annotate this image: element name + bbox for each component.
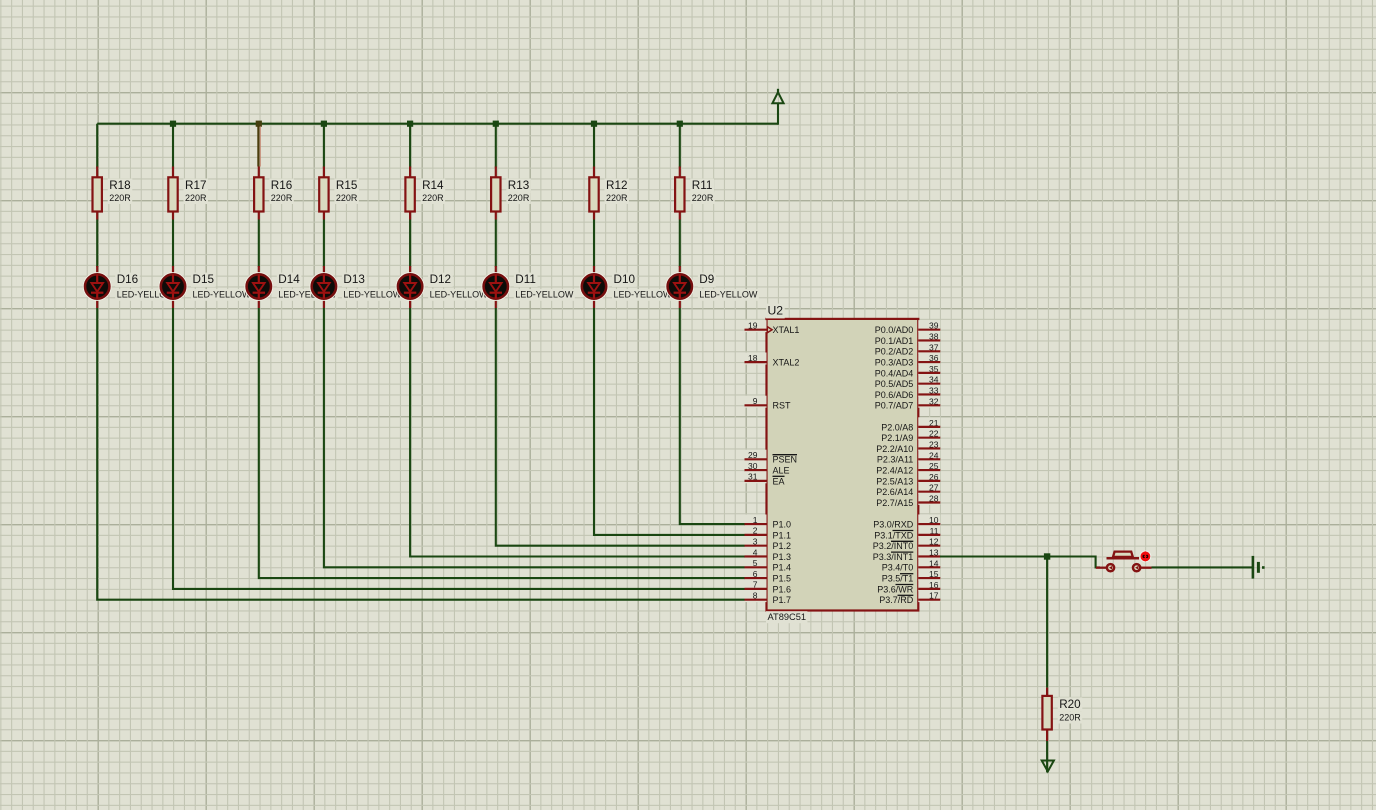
svg-text:220R: 220R (508, 193, 530, 203)
svg-text:220R: 220R (185, 193, 207, 203)
ground symbol (1042, 761, 1054, 772)
wire button to battery (1152, 566, 1253, 568)
pin 16 P3.6/WR (877, 579, 940, 594)
pin 8 P1.7 (745, 590, 792, 605)
pin 15 P3.5/T1 (882, 569, 941, 584)
svg-text:P2.5/A13: P2.5/A13 (876, 476, 913, 486)
resistor R18 220R (93, 167, 133, 220)
svg-text:220R: 220R (1059, 712, 1081, 722)
svg-text:D14: D14 (278, 273, 300, 286)
svg-text:P3.3/INT1: P3.3/INT1 (873, 552, 914, 562)
svg-text:220R: 220R (271, 193, 293, 203)
pin 21 P2.0/A8 (881, 417, 940, 432)
junction rail / R14 column (407, 121, 413, 127)
svg-text:D16: D16 (117, 273, 138, 286)
wire R20 to ground (1046, 741, 1048, 772)
junction rail / R12 column (591, 121, 597, 127)
wire D13 to P1.4 (324, 308, 745, 567)
svg-text:P2.0/A8: P2.0/A8 (881, 422, 913, 432)
wire power rail (97, 123, 778, 125)
LED D9 LED-YELLOW (665, 266, 758, 308)
pin 34 P0.5/AD5 (875, 374, 941, 389)
pin 10 P3.0/RXD (873, 515, 940, 530)
svg-text:P3.5/T1: P3.5/T1 (882, 574, 914, 584)
pin 28 P2.7/A15 (876, 493, 940, 508)
svg-text:ALE: ALE (773, 466, 790, 476)
pin 22 P2.1/A9 (881, 428, 940, 443)
svg-text:XTAL2: XTAL2 (773, 358, 800, 368)
svg-text:P1.0: P1.0 (773, 520, 792, 530)
resistor R14 220R (405, 167, 445, 220)
wire rail to R15 (323, 124, 325, 168)
svg-text:P1.7: P1.7 (773, 595, 792, 605)
svg-text:P0.1/AD1: P0.1/AD1 (875, 336, 914, 346)
pin 12 P3.2/INT0 (873, 536, 941, 551)
svg-text:P0.3/AD3: P0.3/AD3 (875, 358, 914, 368)
pin 2 P1.1 (745, 525, 792, 540)
LED D11 LED-YELLOW (481, 266, 574, 308)
svg-text:P2.3/A11: P2.3/A11 (877, 455, 913, 465)
wire D9 to P1.0 (680, 308, 745, 524)
svg-text:D12: D12 (430, 273, 451, 286)
wire D14 to P1.5 (259, 308, 745, 578)
red actuator marker (1140, 551, 1152, 563)
pin 38 P0.1/AD1 (875, 331, 941, 346)
pin 11 P3.1/TXD (874, 525, 940, 540)
svg-text:R18: R18 (109, 179, 130, 192)
svg-text:RST: RST (773, 401, 792, 411)
wire D10 to P1.1 (594, 308, 745, 535)
wire rail to R17 (172, 124, 174, 168)
svg-text:P3.4/T0: P3.4/T0 (882, 563, 914, 573)
svg-text:P1.5: P1.5 (773, 574, 792, 584)
wire R17 to D15 (172, 220, 174, 268)
junction rail / R16 column (256, 121, 262, 127)
svg-text:P2.1/A9: P2.1/A9 (881, 433, 913, 443)
pin 5 P1.4 (745, 558, 792, 573)
svg-text:P2.7/A15: P2.7/A15 (876, 498, 913, 508)
junction rail / R11 column (677, 121, 683, 127)
svg-text:LED-YELLOW: LED-YELLOW (343, 290, 402, 300)
pin 9 RST (745, 396, 792, 411)
resistor R11 220R (675, 167, 715, 220)
svg-text:220R: 220R (606, 193, 628, 203)
wire rail to R16 (highlighted net) (258, 126, 260, 166)
wire P3.3/INT1 to button (940, 557, 1100, 568)
pin 39 P0.0/AD0 (875, 320, 941, 335)
IC U2 AT89C51 microcontroller body (766, 304, 918, 624)
pin 32 P0.7/AD7 (875, 396, 941, 411)
pin 37 P0.2/AD2 (875, 342, 941, 357)
svg-text:LED-YELLOW: LED-YELLOW (430, 290, 489, 300)
svg-text:D9: D9 (699, 273, 714, 286)
svg-text:R15: R15 (336, 179, 358, 192)
svg-text:EA: EA (773, 476, 785, 486)
pin 27 P2.6/A14 (876, 482, 940, 497)
svg-text:D13: D13 (343, 273, 364, 286)
svg-text:P1.2: P1.2 (773, 541, 792, 551)
svg-text:P0.0/AD0: P0.0/AD0 (875, 325, 914, 335)
junction rail / R13 column (493, 121, 499, 127)
junction node INT1/R20 (1044, 553, 1050, 559)
resistor R16 220R (254, 167, 294, 220)
svg-text:P3.2/INT0: P3.2/INT0 (873, 541, 914, 551)
wire R12 to D10 (593, 220, 595, 268)
LED D15 LED-YELLOW (159, 266, 252, 308)
push button SW (1096, 552, 1152, 572)
pin 29 PSEN (745, 450, 798, 465)
svg-text:R17: R17 (185, 179, 206, 192)
svg-text:R16: R16 (271, 179, 292, 192)
svg-text:P1.4: P1.4 (773, 563, 792, 573)
svg-text:220R: 220R (336, 193, 358, 203)
pin 33 P0.6/AD6 (875, 385, 941, 400)
svg-text:D15: D15 (193, 273, 215, 286)
resistor R13 220R (491, 167, 531, 220)
pin 4 P1.3 (745, 547, 792, 562)
wire D11 to P1.2 (496, 308, 745, 546)
wire rail to R11 (679, 124, 681, 168)
resistor R12 220R (589, 167, 629, 220)
pin 35 P0.4/AD4 (875, 363, 941, 378)
pin 18 XTAL2 (745, 353, 800, 368)
pin 36 P0.3/AD3 (875, 353, 941, 368)
wire R16 to D14 (258, 220, 260, 268)
svg-text:LED-YELLOW: LED-YELLOW (515, 290, 574, 300)
svg-text:XTAL1: XTAL1 (773, 325, 800, 335)
wire rail to R18 (96, 124, 98, 168)
wire D16 to P1.7 (97, 308, 744, 600)
wire R18 to D16 (96, 220, 98, 268)
wire rail to R12 (593, 124, 595, 168)
pin 13 P3.3/INT1 (873, 547, 941, 562)
pin 30 ALE (745, 461, 790, 476)
resistor R17 220R (168, 167, 208, 220)
wire rail to R13 (495, 124, 497, 168)
svg-text:P3.6/WR: P3.6/WR (877, 584, 914, 594)
pin 1 P1.0 (745, 515, 792, 530)
svg-text:P2.2/A10: P2.2/A10 (876, 444, 913, 454)
svg-text:R12: R12 (606, 179, 627, 192)
pin 17 P3.7/RD (879, 590, 940, 605)
svg-text:D11: D11 (515, 273, 536, 286)
svg-text:LED-YELLOW: LED-YELLOW (614, 290, 673, 300)
svg-text:LED-YELLOW: LED-YELLOW (193, 290, 252, 300)
svg-text:P3.1/TXD: P3.1/TXD (874, 530, 914, 540)
svg-text:220R: 220R (109, 193, 131, 203)
svg-text:P1.1: P1.1 (773, 530, 792, 540)
wire R15 to D13 (323, 220, 325, 268)
svg-text:P0.6/AD6: P0.6/AD6 (875, 390, 914, 400)
pin 31 EA (745, 471, 785, 486)
wire R13 to D11 (495, 220, 497, 268)
svg-text:R14: R14 (422, 179, 444, 192)
resistor R20 220R (1042, 688, 1082, 741)
svg-text:AT89C51: AT89C51 (768, 612, 807, 622)
junction rail / R15 column (321, 121, 327, 127)
pin 24 P2.3/A11 (877, 450, 940, 465)
LED D13 LED-YELLOW (310, 266, 403, 308)
LED D14 LED-YELLOW (244, 266, 337, 308)
svg-text:P2.6/A14: P2.6/A14 (876, 487, 913, 497)
svg-text:P1.3: P1.3 (773, 552, 792, 562)
svg-text:P0.2/AD2: P0.2/AD2 (875, 347, 914, 357)
svg-text:U2: U2 (768, 304, 784, 318)
resistor R15 220R (319, 167, 359, 220)
LED D16 LED-YELLOW (83, 266, 176, 308)
wire R14 to D12 (409, 220, 411, 268)
svg-text:PSEN: PSEN (773, 455, 798, 465)
wire rail to R14 (409, 124, 411, 168)
svg-text:P0.7/AD7: P0.7/AD7 (875, 401, 914, 411)
pin 26 P2.5/A13 (876, 471, 940, 486)
svg-text:220R: 220R (422, 193, 444, 203)
pin 3 P1.2 (745, 536, 792, 551)
wire R11 to D9 (679, 220, 681, 268)
svg-text:220R: 220R (692, 193, 714, 203)
battery cell symbol (1253, 556, 1265, 579)
pin 14 P3.4/T0 (882, 558, 941, 573)
wire D12 to P1.3 (410, 308, 744, 557)
svg-text:P0.4/AD4: P0.4/AD4 (875, 368, 914, 378)
svg-text:R13: R13 (508, 179, 529, 192)
svg-text:P3.7/RD: P3.7/RD (879, 595, 914, 605)
pin 23 P2.2/A10 (876, 439, 940, 454)
wire junction to R20 (1046, 557, 1048, 688)
svg-text:P1.6: P1.6 (773, 584, 792, 594)
svg-text:P3.0/RXD: P3.0/RXD (873, 520, 914, 530)
pin 25 P2.4/A12 (876, 461, 940, 476)
junction rail / R17 column (170, 121, 176, 127)
svg-text:LED-YELLOW: LED-YELLOW (699, 290, 758, 300)
svg-text:D10: D10 (614, 273, 636, 286)
pin 7 P1.6 (745, 579, 792, 594)
svg-text:R11: R11 (692, 179, 713, 192)
wire D15 to P1.6 (173, 308, 745, 589)
pin 6 P1.5 (745, 569, 792, 584)
LED D10 LED-YELLOW (580, 266, 673, 308)
LED D12 LED-YELLOW (396, 266, 489, 308)
pin 19 XTAL1 (745, 320, 800, 335)
pin marker XTAL1 (767, 327, 772, 333)
svg-text:P0.5/AD5: P0.5/AD5 (875, 379, 914, 389)
svg-text:P2.4/A12: P2.4/A12 (876, 466, 913, 476)
svg-text:R20: R20 (1059, 698, 1081, 711)
power symbol VCC arrow (772, 89, 783, 125)
